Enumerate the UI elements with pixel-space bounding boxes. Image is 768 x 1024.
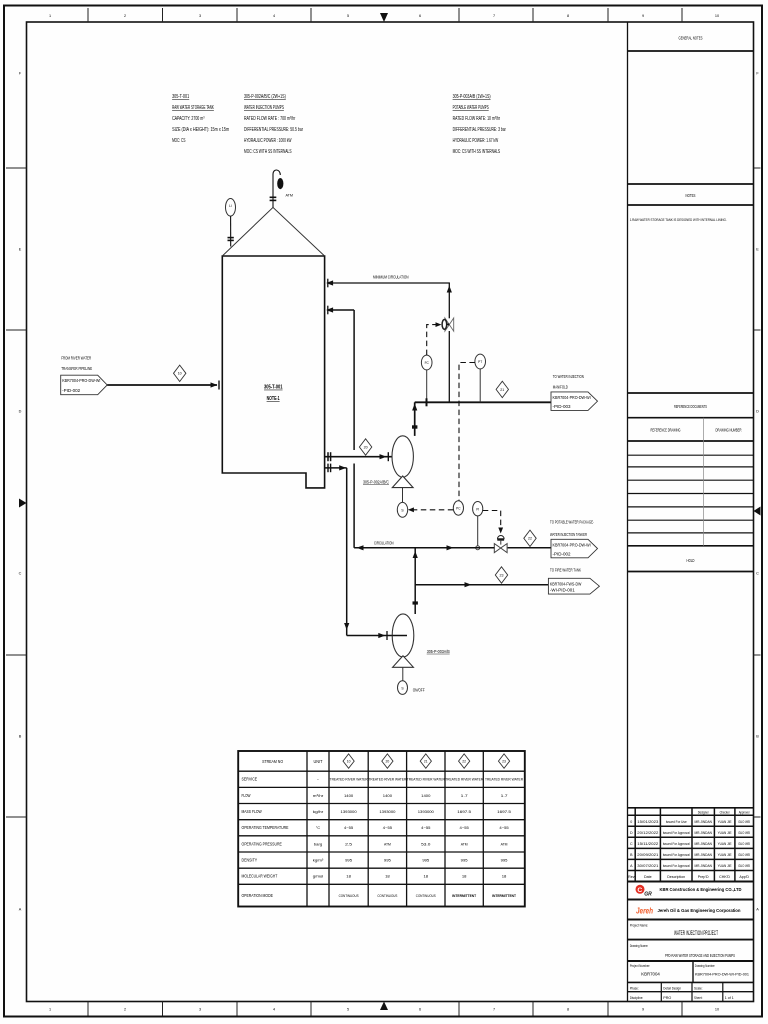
svg-text:MOC: CS WITH SS INTERNALS: MOC: CS WITH SS INTERNALS: [453, 149, 501, 155]
svg-text:10: 10: [715, 14, 719, 18]
svg-text:B: B: [19, 735, 22, 739]
svg-text:OPERATING TEMPERATURE: OPERATING TEMPERATURE: [242, 825, 289, 830]
numbers row: [692, 961, 694, 982]
svg-text:Discipline:: Discipline:: [630, 996, 644, 1000]
svg-text:GUO WEI: GUO WEI: [738, 842, 750, 846]
svg-text:MR.JINDAN: MR.JINDAN: [694, 831, 712, 835]
svg-text:TREATED RIVER WATER: TREATED RIVER WATER: [407, 777, 445, 782]
svg-text:°C: °C: [316, 825, 320, 830]
svg-text:YUAN JIE: YUAN JIE: [718, 864, 733, 868]
svg-text:Rev: Rev: [628, 875, 635, 879]
svg-text:3: 3: [199, 1008, 201, 1012]
svg-text:CAPACITY: 2700 m³: CAPACITY: 2700 m³: [172, 116, 204, 122]
svg-text:C: C: [630, 842, 633, 846]
svg-text:305-P-003A/B (1W+1S): 305-P-003A/B (1W+1S): [453, 94, 491, 100]
svg-text:ATM: ATM: [384, 841, 391, 846]
phase and discipline rows: [661, 982, 723, 1001]
svg-text:-WI-PID-001: -WI-PID-001: [550, 588, 575, 593]
svg-text:INTERMITTENT: INTERMITTENT: [492, 893, 516, 898]
svg-text:8: 8: [567, 1008, 569, 1012]
svg-text:TREATED RIVER WATER: TREATED RIVER WATER: [445, 777, 483, 782]
inlet flag: [61, 375, 107, 395]
svg-text:KBR7004-PRO-DW-WI-PID-001: KBR7004-PRO-DW-WI-PID-001: [695, 971, 750, 976]
svg-text:FLOW: FLOW: [242, 793, 251, 798]
pump 305-P-002A/B/C: [392, 436, 413, 477]
svg-text:1697.5: 1697.5: [497, 809, 512, 814]
flow controller on header: [426, 370, 428, 402]
svg-text:RATED FLOW RATE : 700 m³/hr: RATED FLOW RATE : 700 m³/hr: [244, 116, 295, 122]
svg-text:MASS FLOW: MASS FLOW: [242, 809, 262, 814]
svg-text:CONTINUOUS: CONTINUOUS: [416, 893, 436, 898]
svg-text:STREAM NO: STREAM NO: [262, 759, 284, 764]
svg-text:B: B: [756, 735, 759, 739]
svg-text:TREATED RIVER WATER: TREATED RIVER WATER: [368, 777, 406, 782]
svg-text:m³/hr: m³/hr: [313, 793, 324, 798]
svg-text:8: 8: [567, 14, 569, 18]
pressure transmitter on header: [479, 369, 481, 402]
svg-text:7: 7: [493, 1008, 495, 1012]
svg-text:995: 995: [345, 858, 353, 863]
svg-text:MOLECULAR WEIGHT: MOLECULAR WEIGHT: [242, 874, 278, 879]
svg-text:1393000: 1393000: [379, 809, 396, 814]
svg-text:HOLD: HOLD: [687, 558, 695, 563]
svg-text:10: 10: [347, 760, 351, 764]
svg-text:4: 4: [273, 1008, 275, 1012]
svg-text:GENERAL NOTES: GENERAL NOTES: [679, 36, 703, 42]
svg-text:KBR7004-PRO-DW-WI: KBR7004-PRO-DW-WI: [62, 378, 100, 383]
circulation line: [354, 547, 494, 549]
control valve on min circulation: [445, 318, 449, 331]
svg-text:Project Name:: Project Name:: [630, 924, 649, 928]
title block column: [628, 22, 754, 1002]
svg-text:E: E: [756, 248, 759, 252]
svg-text:CHK'D: CHK'D: [719, 875, 730, 879]
fire water branch: [415, 584, 549, 586]
P-003 discharge riser: [414, 548, 416, 614]
svg-text:995: 995: [501, 858, 509, 863]
svg-text:1 of 1: 1 of 1: [725, 996, 734, 1000]
svg-text:4~55: 4~55: [499, 825, 509, 830]
svg-text:KBR Construction & Engineering: KBR Construction & Engineering CO.,LTD: [660, 887, 742, 893]
svg-text:DENSITY: DENSITY: [242, 858, 258, 863]
svg-text:ON/OFF: ON/OFF: [413, 687, 425, 692]
svg-text:MINIMUM CIRCULATION: MINIMUM CIRCULATION: [373, 274, 409, 279]
svg-text:KBR7004-PRO-DW-WI: KBR7004-PRO-DW-WI: [553, 395, 591, 400]
svg-text:UNIT: UNIT: [314, 759, 323, 764]
svg-text:6: 6: [419, 14, 421, 18]
svg-text:kg/m³: kg/m³: [313, 858, 324, 863]
svg-text:ATM: ATM: [501, 841, 508, 846]
svg-text:ATM: ATM: [286, 192, 294, 197]
signal to potable control valve: [483, 511, 501, 528]
node 23 diamond: [495, 567, 507, 583]
svg-text:NOTES: NOTES: [686, 193, 696, 199]
node 10 diamond: [174, 365, 186, 381]
svg-text:Jereh: Jereh: [636, 906, 653, 915]
svg-text:Drawing Number:: Drawing Number:: [695, 964, 716, 968]
svg-text:15/01/2023: 15/01/2023: [637, 820, 658, 824]
P-002 discharge riser: [414, 402, 416, 436]
svg-text:FROM RIVER WATER: FROM RIVER WATER: [61, 356, 91, 362]
svg-text:LI: LI: [229, 204, 232, 208]
svg-text:30/07/2021: 30/07/2021: [637, 864, 658, 868]
svg-text:INTERMITTENT: INTERMITTENT: [452, 893, 476, 898]
svg-text:Issued For Use: Issued For Use: [666, 820, 687, 824]
svg-text:2: 2: [124, 1008, 126, 1012]
injection header line: [415, 401, 552, 403]
svg-text:GUO WEI: GUO WEI: [738, 820, 750, 824]
svg-text:Phase:: Phase:: [630, 987, 639, 991]
min circulation line into tank: [332, 282, 450, 284]
svg-text:21: 21: [424, 760, 428, 764]
pressure indicator on potable line: [473, 502, 483, 516]
svg-text:305-T-001: 305-T-001: [172, 94, 189, 100]
svg-text:Approver: Approver: [739, 811, 751, 815]
svg-text:Jereh Oil & Gas Engineering Co: Jereh Oil & Gas Engineering Corporation: [658, 908, 741, 914]
svg-text:23: 23: [502, 760, 506, 764]
svg-text:RATED FLOW RATE: 10 m³/hr: RATED FLOW RATE: 10 m³/hr: [453, 116, 501, 122]
svg-text:15/11/2022: 15/11/2022: [637, 842, 658, 846]
svg-text:CIRCULATION: CIRCULATION: [374, 540, 394, 545]
control valve on potable line: [498, 535, 505, 538]
svg-text:KBR7004: KBR7004: [641, 971, 660, 976]
svg-text:1: 1: [49, 14, 51, 18]
svg-text:POTABLE WATER PUMPS: POTABLE WATER PUMPS: [453, 105, 489, 111]
svg-text:995: 995: [384, 858, 392, 863]
svg-text:4~55: 4~55: [421, 825, 431, 830]
svg-text:PFD-RAW WATER STORAGE AND INJE: PFD-RAW WATER STORAGE AND INJECTION PUMP…: [665, 953, 735, 958]
svg-text:0: 0: [630, 820, 632, 824]
svg-text:PRO: PRO: [663, 996, 671, 1000]
svg-text:3: 3: [199, 14, 201, 18]
svg-text:MR.JINDAN: MR.JINDAN: [694, 864, 712, 868]
svg-text:Description: Description: [667, 875, 685, 879]
minimum circulation riser: [448, 331, 450, 402]
svg-text:18: 18: [502, 874, 507, 879]
tank outlet to potable pumps: [325, 467, 347, 469]
svg-text:WATER INJECTION TANKER: WATER INJECTION TANKER: [550, 532, 587, 538]
svg-text:Issued For Approval: Issued For Approval: [663, 864, 690, 868]
svg-text:22: 22: [528, 537, 532, 541]
svg-text:Scale:: Scale:: [694, 987, 703, 991]
svg-text:TREATED RIVER WATER: TREATED RIVER WATER: [330, 777, 368, 782]
node 22 diamond: [524, 530, 536, 546]
svg-text:OPERATING PRESSURE: OPERATING PRESSURE: [242, 841, 282, 846]
pressure signal dashed down: [459, 363, 475, 501]
svg-text:1393000: 1393000: [341, 809, 358, 814]
svg-text:REFERENCE DRAWING: REFERENCE DRAWING: [651, 428, 681, 433]
svg-text:Prep'D: Prep'D: [698, 875, 709, 879]
svg-text:YUAN JIE: YUAN JIE: [718, 853, 733, 857]
svg-text:HYDRAULIC POWER : 1000 kW: HYDRAULIC POWER : 1000 kW: [244, 138, 292, 144]
svg-text:MOC: CS WITH SS INTERNALS: MOC: CS WITH SS INTERNALS: [244, 149, 292, 155]
svg-text:OPERATION MODE: OPERATION MODE: [242, 893, 274, 898]
svg-text:995: 995: [422, 858, 430, 863]
svg-text:barg: barg: [314, 841, 322, 846]
svg-text:20/12/2022: 20/12/2022: [637, 831, 658, 835]
svg-text:MR.JINDAN: MR.JINDAN: [694, 853, 712, 857]
svg-text:1697.5: 1697.5: [457, 809, 472, 814]
svg-text:Issued For Approval: Issued For Approval: [663, 853, 690, 857]
pressure controller: [453, 501, 463, 515]
svg-text:1400: 1400: [383, 793, 393, 798]
svg-text:TO POTABLE WATER PACKAGE-: TO POTABLE WATER PACKAGE-: [550, 520, 594, 526]
svg-text:2: 2: [124, 14, 126, 18]
svg-text:FC: FC: [425, 361, 430, 365]
tank return nozzle line: [332, 309, 355, 311]
signal to valve: [427, 325, 438, 356]
svg-text:WATER INJECTION PROJECT: WATER INJECTION PROJECT: [674, 930, 718, 937]
svg-text:53.0: 53.0: [421, 841, 431, 846]
svg-text:Checker: Checker: [720, 811, 731, 815]
svg-text:A: A: [19, 908, 22, 912]
svg-text:305-P-002A/B/C: 305-P-002A/B/C: [363, 479, 389, 484]
svg-text:2.5: 2.5: [345, 841, 353, 846]
svg-text:TO FIRE WATER TANK: TO FIRE WATER TANK: [550, 568, 581, 574]
svg-text:1.7: 1.7: [461, 793, 469, 798]
level instrument on tank roof: [226, 199, 236, 217]
svg-text:WATER INJECTION PUMPS: WATER INJECTION PUMPS: [244, 105, 284, 111]
svg-text:-PID-003: -PID-003: [553, 404, 572, 409]
speed controller for P-002: [402, 488, 404, 503]
svg-text:Detail Design: Detail Design: [663, 987, 681, 991]
tank vent gooseneck: [273, 170, 280, 207]
svg-text:E: E: [19, 248, 22, 252]
revision table: [628, 808, 754, 882]
svg-text:-PID-002: -PID-002: [553, 551, 572, 556]
svg-text:RAW WATER STORAGE TANK: RAW WATER STORAGE TANK: [172, 105, 214, 111]
svg-text:kg/hr: kg/hr: [313, 809, 324, 814]
svg-text:GUO WEI: GUO WEI: [738, 864, 750, 868]
svg-text:18: 18: [346, 874, 351, 879]
svg-text:GR: GR: [644, 891, 652, 897]
svg-text:Sheet:: Sheet:: [694, 996, 703, 1000]
suction line tank to P-002: [325, 456, 408, 458]
tank 305-T-001 body: [222, 256, 324, 488]
svg-text:995: 995: [461, 858, 469, 863]
svg-text:ATM: ATM: [461, 841, 468, 846]
svg-text:YUAN JIE: YUAN JIE: [718, 842, 733, 846]
svg-text:C: C: [637, 887, 642, 894]
svg-text:20: 20: [386, 760, 390, 764]
svg-text:MR.JINDAN: MR.JINDAN: [694, 820, 712, 824]
svg-text:GUO WEI: GUO WEI: [738, 831, 750, 835]
svg-text:-PID-002: -PID-002: [62, 388, 81, 393]
svg-text:PT: PT: [478, 360, 482, 364]
company logo CGR: [636, 885, 645, 894]
svg-text:TREATED RIVER WATER: TREATED RIVER WATER: [485, 777, 523, 782]
svg-text:18: 18: [385, 874, 390, 879]
svg-text:D: D: [756, 410, 759, 414]
svg-text:g/mol: g/mol: [313, 874, 324, 879]
svg-text:D: D: [630, 831, 633, 835]
svg-text:20: 20: [364, 445, 368, 449]
svg-text:YUAN JIE: YUAN JIE: [718, 831, 733, 835]
svg-text:KBR7004-PRO-DW-WI: KBR7004-PRO-DW-WI: [553, 542, 591, 547]
svg-text:REFERENCE DOCUMENTS: REFERENCE DOCUMENTS: [674, 404, 707, 410]
svg-text:CONTINUOUS: CONTINUOUS: [377, 893, 397, 898]
svg-text:1: 1: [49, 1008, 51, 1012]
svg-text:305-T-001: 305-T-001: [264, 385, 283, 391]
stream summary table: [238, 751, 525, 907]
svg-text:App'D: App'D: [739, 875, 749, 879]
on/off instrument: [402, 667, 404, 681]
potable line valve to flag: [508, 547, 552, 549]
svg-text:21: 21: [500, 388, 504, 392]
reducer: [412, 425, 417, 428]
svg-text:SIZE (DIA x HEIGHT): 15m x 15m: SIZE (DIA x HEIGHT): 15m x 15m: [172, 127, 229, 133]
svg-text:Issued For Approval: Issued For Approval: [663, 831, 690, 835]
svg-text:Drawing Name:: Drawing Name:: [630, 944, 649, 948]
svg-text:18: 18: [462, 874, 467, 879]
svg-text:GUO WEI: GUO WEI: [738, 853, 750, 857]
inlet line to tank: [107, 384, 217, 386]
tank roof: [222, 207, 324, 256]
svg-text:MR.JINDAN: MR.JINDAN: [694, 842, 712, 846]
svg-text:Date: Date: [644, 875, 652, 879]
svg-text:CONTINUOUS: CONTINUOUS: [339, 893, 359, 898]
svg-text:18: 18: [424, 874, 429, 879]
circulation riser with crossing break: [353, 310, 355, 450]
svg-text:1.RAW WATER STORAGE TANK IS DE: 1.RAW WATER STORAGE TANK IS DESIGNED WIT…: [630, 217, 727, 222]
svg-text:20/09/2021: 20/09/2021: [637, 853, 658, 857]
svg-text:10: 10: [178, 372, 182, 376]
svg-text:305-P-003A/B: 305-P-003A/B: [427, 649, 450, 654]
svg-text:A: A: [756, 908, 759, 912]
svg-text:4~55: 4~55: [383, 825, 393, 830]
svg-text:PC: PC: [456, 507, 461, 511]
svg-text:MOC: CS: MOC: CS: [172, 138, 186, 144]
svg-text:22: 22: [462, 760, 466, 764]
svg-text:1400: 1400: [344, 793, 354, 798]
svg-text:C: C: [19, 572, 22, 576]
svg-text:C: C: [756, 572, 759, 576]
svg-text:6: 6: [419, 1008, 421, 1012]
svg-text:1.7: 1.7: [501, 793, 509, 798]
svg-text:10: 10: [715, 1008, 719, 1012]
svg-text:5: 5: [347, 1008, 349, 1012]
svg-text:1393000: 1393000: [418, 809, 435, 814]
svg-text:DIFFERENTIAL PRESSURE: 3 bar: DIFFERENTIAL PRESSURE: 3 bar: [453, 127, 506, 133]
svg-text:TRANSFER PIPELINE: TRANSFER PIPELINE: [61, 366, 92, 372]
signal to pump speed: [411, 509, 453, 511]
svg-text:7: 7: [493, 14, 495, 18]
svg-text:SERVICE: SERVICE: [242, 777, 258, 782]
pump 305-P-003A/B: [392, 614, 414, 657]
svg-text:DIFFERENTIAL PRESSURE: 50.5 ba: DIFFERENTIAL PRESSURE: 50.5 bar: [244, 127, 303, 133]
svg-text:4: 4: [273, 14, 275, 18]
svg-text:Project Number:: Project Number:: [630, 964, 651, 968]
svg-text:YUAN JIE: YUAN JIE: [718, 820, 733, 824]
svg-text:KBR7004-FWS-DW: KBR7004-FWS-DW: [550, 581, 582, 586]
svg-text:Issued For Approval: Issued For Approval: [663, 842, 690, 846]
svg-text:5: 5: [347, 14, 349, 18]
svg-text:Designer: Designer: [698, 811, 710, 815]
svg-text:1400: 1400: [421, 793, 431, 798]
svg-text:4~55: 4~55: [344, 825, 354, 830]
svg-text:305-P-002A/B/C (2W+1S): 305-P-002A/B/C (2W+1S): [244, 94, 286, 100]
svg-text:4~55: 4~55: [460, 825, 470, 830]
svg-text:MANIFOLD: MANIFOLD: [553, 385, 568, 391]
svg-text:DRAWING NUMBER: DRAWING NUMBER: [716, 428, 742, 433]
svg-text:9: 9: [642, 14, 644, 18]
svg-text:PI: PI: [476, 507, 479, 511]
svg-text:HYDRAULIC POWER: 1.67 kW: HYDRAULIC POWER: 1.67 kW: [453, 138, 499, 144]
svg-text:D: D: [19, 410, 22, 414]
svg-text:9: 9: [642, 1008, 644, 1012]
svg-text:NOTE-1: NOTE-1: [267, 396, 280, 402]
svg-text:TO WATER INJECTION: TO WATER INJECTION: [553, 374, 584, 380]
svg-text:23: 23: [500, 573, 504, 577]
node 21 diamond: [496, 381, 508, 397]
node 20 diamond: [359, 439, 371, 455]
